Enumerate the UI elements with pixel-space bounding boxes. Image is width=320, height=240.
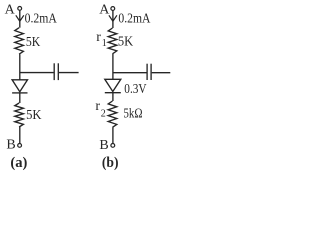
- capacitor (right) plate 1: [146, 64, 148, 80]
- wire diode to r2 (right): [112, 93, 114, 101]
- diode D (right) cathode bar: [105, 92, 121, 94]
- svg-text:(b): (b): [102, 155, 119, 171]
- capacitor (left) plate 1: [53, 63, 55, 80]
- capacitor (left) right lead: [59, 72, 79, 74]
- terminal B (right): [111, 144, 115, 148]
- svg-text:A: A: [5, 2, 16, 17]
- wire R1 to diode: [19, 54, 21, 80]
- circuit schematic: two diode/resistor branches (a) and (b): [0, 0, 175, 174]
- resistor 5K upper (left): [15, 28, 24, 55]
- svg-text:1: 1: [102, 38, 107, 49]
- terminal A (right): [111, 7, 115, 11]
- wire r2 to B (right): [112, 127, 114, 143]
- svg-text:0.2mA: 0.2mA: [118, 11, 151, 26]
- svg-text:5kΩ: 5kΩ: [123, 106, 142, 121]
- svg-text:0.2mA: 0.2mA: [25, 12, 58, 27]
- svg-text:5K: 5K: [118, 35, 133, 50]
- capacitor (right) plate 2: [150, 64, 152, 80]
- resistor r1 (right): [108, 28, 117, 54]
- wire junction to capacitor (left): [20, 72, 54, 74]
- terminal A (left): [18, 6, 22, 10]
- resistor r2 (right): [108, 101, 117, 127]
- resistor 5K lower (left): [15, 103, 24, 127]
- wire diode to R2 (left): [19, 93, 21, 103]
- svg-text:(a): (a): [10, 155, 27, 171]
- capacitor (left) plate 2: [57, 63, 59, 80]
- diode D (left) cathode bar: [12, 92, 27, 94]
- capacitor (right) right lead: [152, 72, 171, 74]
- svg-text:5K: 5K: [26, 108, 41, 123]
- svg-text:B: B: [6, 138, 15, 153]
- current arrow 0.2mA (left): [16, 15, 24, 21]
- svg-text:2: 2: [101, 108, 106, 119]
- svg-text:0.3V: 0.3V: [124, 82, 146, 97]
- svg-text:5K: 5K: [26, 35, 40, 50]
- wire R2 to B (left): [19, 127, 21, 143]
- current arrow 0.2mA (right): [109, 15, 117, 21]
- svg-text:r: r: [96, 30, 101, 45]
- wire junction to capacitor (right): [113, 72, 147, 74]
- diode D (left): [12, 80, 27, 92]
- wire A to r1: [112, 10, 114, 28]
- svg-text:A: A: [99, 2, 110, 17]
- svg-text:r: r: [95, 99, 100, 114]
- terminal B (left): [18, 144, 22, 148]
- diode D (right): [105, 79, 121, 91]
- wire r1 to diode (right): [112, 54, 114, 80]
- wire A to R1: [19, 10, 21, 27]
- svg-text:B: B: [99, 138, 108, 153]
